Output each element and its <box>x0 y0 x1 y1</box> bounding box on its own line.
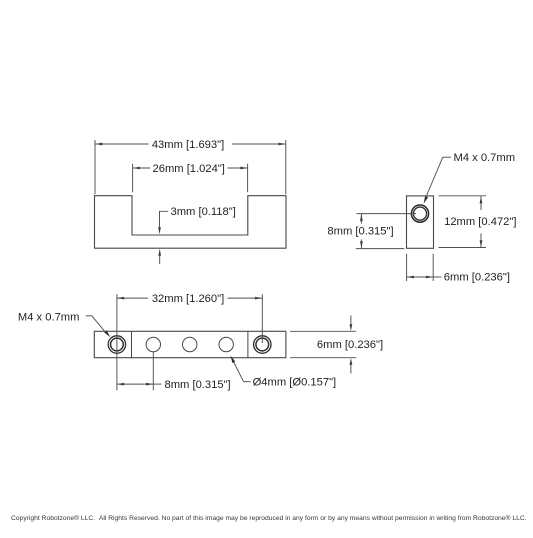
top view: bar outline <box>94 331 286 357</box>
top view plain hole 4 <box>219 337 233 351</box>
dimension 8mm [0.315"] (side view) <box>356 214 416 249</box>
svg-text:8mm [0.315"]: 8mm [0.315"] <box>165 379 231 391</box>
top view tapped hole 5 <box>254 336 271 353</box>
svg-text:Ø4mm [Ø0.157"]: Ø4mm [Ø0.157"] <box>253 377 337 389</box>
svg-text:26mm [1.024"]: 26mm [1.024"] <box>153 163 225 175</box>
svg-text:43mm [1.693"]: 43mm [1.693"] <box>152 139 224 151</box>
svg-text:12mm [0.472"]: 12mm [0.472"] <box>444 216 516 228</box>
side view tapped hole M4 <box>411 205 428 222</box>
svg-text:3mm [0.118"]: 3mm [0.118"] <box>171 206 236 218</box>
label M4 x 0.7mm (top view) with leader <box>86 316 107 334</box>
dimension 26mm [1.024"] <box>133 164 248 193</box>
svg-text:M4 x 0.7mm: M4 x 0.7mm <box>454 152 516 164</box>
label Ø4mm [Ø0.157"] with leader <box>233 360 251 382</box>
dimension 6mm [0.236"] (top view) <box>290 316 356 374</box>
dimension 43mm [1.693"] <box>95 140 286 194</box>
front view: U-channel outline <box>95 196 287 249</box>
svg-text:6mm [0.236"]: 6mm [0.236"] <box>444 271 510 283</box>
dimension 12mm [0.472"] <box>439 196 487 248</box>
svg-text:6mm [0.236"]: 6mm [0.236"] <box>317 339 383 351</box>
top view inner wall line right <box>247 331 249 357</box>
svg-text:32mm [1.260"]: 32mm [1.260"] <box>152 293 224 305</box>
top view plain hole 2 <box>146 337 160 351</box>
top view inner wall line left <box>131 331 133 357</box>
svg-text:8mm [0.315"]: 8mm [0.315"] <box>327 226 393 238</box>
side view: rectangle <box>407 196 434 248</box>
svg-text:Copyright Robotzone® LLC. All: Copyright Robotzone® LLC. All Rights Res… <box>11 514 527 522</box>
dimension 32mm [1.260"] <box>117 294 262 390</box>
label M4 x 0.7mm (side view) with leader <box>425 157 451 198</box>
dimension 6mm [0.236"] (side view) <box>407 254 442 281</box>
copyright line <box>11 514 527 522</box>
top view plain hole 3 <box>183 337 197 351</box>
top view tapped hole 1 <box>108 336 125 353</box>
svg-text:M4 x 0.7mm: M4 x 0.7mm <box>18 312 80 324</box>
dimension 3mm [0.118"] with leader <box>160 211 169 264</box>
dimension 8mm [0.315"] (top view) <box>117 352 162 391</box>
